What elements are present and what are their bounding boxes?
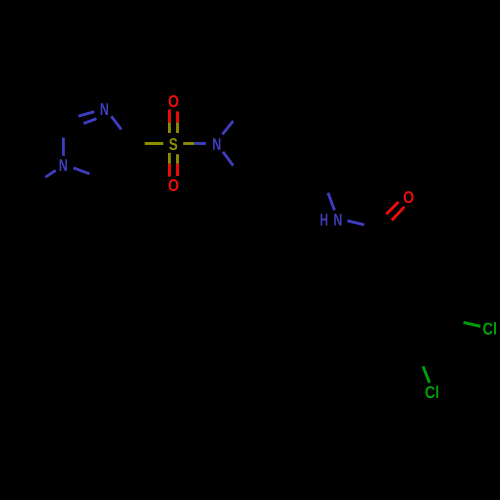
svg-text:O: O bbox=[168, 92, 179, 111]
bond Caryl-Cl1 (Cl-half) bbox=[464, 322, 481, 326]
bond N1-C5 (N-half) bbox=[73, 168, 89, 174]
svg-text:Cl: Cl bbox=[483, 320, 497, 339]
bond Caryl-Cl2 (Cl-half) bbox=[423, 366, 430, 382]
bond N3-C4 (N-half) bbox=[111, 116, 121, 129]
bond S=O bottom, right line olive S-half bbox=[176, 154, 179, 164]
svg-text:N: N bbox=[59, 156, 68, 175]
bond S-Npip S-half bbox=[183, 142, 194, 145]
bond Npip-C6' down-right (N-half) bbox=[223, 152, 233, 166]
svg-text:Cl: Cl bbox=[425, 383, 439, 402]
bond S=O bottom, left line red O-half bbox=[168, 164, 171, 177]
bond S=O bottom, right line red O-half bbox=[176, 164, 179, 176]
svg-text:N: N bbox=[212, 135, 221, 154]
bond S=O top, right line red O-half bbox=[176, 111, 179, 122]
bond S=O top, left line olive S-half bbox=[168, 123, 171, 133]
bond S=O top, left line red O-half bbox=[168, 109, 171, 122]
svg-text:N: N bbox=[333, 211, 342, 230]
svg-text:N: N bbox=[100, 100, 109, 119]
bond C4-S (S-half) bbox=[145, 142, 164, 145]
svg-text:O: O bbox=[403, 188, 414, 207]
bond C=O amide double, inner line (O-half) bbox=[386, 202, 398, 214]
bond C2-N1 (N-half) bbox=[62, 138, 65, 156]
bond S=O top, right line olive S-half bbox=[176, 123, 179, 133]
svg-text:S: S bbox=[169, 135, 178, 154]
svg-text:H: H bbox=[320, 211, 328, 230]
bond NH-C(=O) (N-half) bbox=[347, 221, 364, 225]
bond Npip-C2' up-right (N-half) bbox=[222, 121, 233, 134]
svg-text:O: O bbox=[168, 176, 179, 195]
bond C=O amide double, outer line (O-half) bbox=[392, 207, 405, 221]
bond CH2-NH (N-half) bbox=[328, 193, 335, 210]
bond N1-CH3 (N-half) bbox=[45, 170, 55, 177]
bond S-Npip N-half bbox=[194, 142, 206, 145]
bond C2=N3 double, inner line (N-half) bbox=[84, 119, 97, 124]
bond S=O bottom, left line olive S-half bbox=[168, 153, 171, 164]
bond C2=N3 double, outer line (N-half) bbox=[78, 112, 94, 116]
